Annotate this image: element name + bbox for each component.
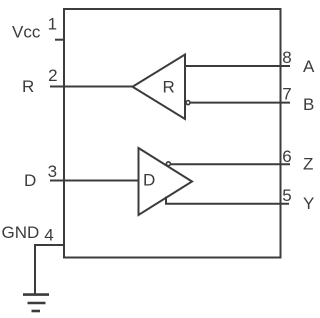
svg-text:6: 6	[282, 147, 291, 166]
inversion bubble on driver output Z	[166, 162, 170, 166]
svg-text:GND: GND	[2, 223, 40, 242]
svg-text:D: D	[24, 171, 36, 190]
svg-text:B: B	[303, 95, 314, 114]
svg-text:R: R	[163, 77, 175, 96]
wire pin 4 (GND)	[35, 245, 64, 295]
wire pin 5 (output Y)	[166, 197, 289, 204]
inversion bubble on receiver input B	[186, 101, 190, 105]
svg-text:Y: Y	[303, 194, 314, 213]
IC outline box U1	[64, 9, 281, 258]
svg-text:1: 1	[48, 15, 57, 34]
svg-text:5: 5	[282, 186, 291, 205]
svg-text:3: 3	[48, 162, 57, 181]
wire pin 7 (input B)	[191, 102, 290, 104]
driver D triangle	[139, 148, 193, 215]
svg-text:7: 7	[282, 85, 291, 104]
svg-text:8: 8	[282, 48, 291, 67]
svg-text:R: R	[22, 77, 34, 96]
wire pin 2 to receiver output	[50, 86, 134, 88]
svg-text:A: A	[303, 57, 315, 76]
ground symbol	[23, 295, 49, 311]
wire pin 6 (output Z)	[171, 163, 290, 165]
svg-text:Z: Z	[303, 155, 313, 174]
pin 1 stub wire (Vcc)	[55, 39, 64, 41]
wire pin 3 to driver input	[50, 180, 139, 182]
wire pin 8 (input A)	[185, 65, 290, 67]
svg-text:4: 4	[44, 226, 53, 245]
svg-text:2: 2	[48, 66, 57, 85]
svg-text:D: D	[143, 171, 155, 190]
receiver R triangle	[133, 55, 186, 120]
svg-text:Vcc: Vcc	[12, 23, 41, 42]
